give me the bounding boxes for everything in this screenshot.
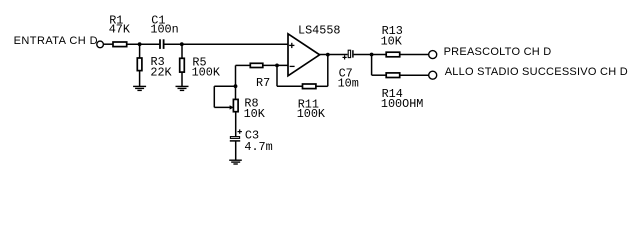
svg-text:100K: 100K [192, 65, 221, 79]
svg-text:10K: 10K [381, 34, 403, 48]
svg-text:LS4558: LS4558 [298, 24, 340, 38]
svg-text:100K: 100K [297, 107, 326, 121]
svg-text:10m: 10m [338, 76, 359, 90]
svg-text:22K: 22K [150, 65, 172, 79]
svg-text:R7: R7 [256, 76, 270, 90]
svg-text:PREASCOLTO CH D: PREASCOLTO CH D [444, 46, 552, 58]
svg-text:ENTRATA CH D: ENTRATA CH D [14, 35, 98, 47]
svg-text:10K: 10K [244, 107, 266, 121]
svg-text:100n: 100n [150, 23, 178, 37]
svg-text:4.7m: 4.7m [244, 140, 272, 154]
svg-text:47K: 47K [109, 22, 131, 36]
svg-text:100OHM: 100OHM [381, 97, 423, 111]
svg-text:ALLO STADIO SUCCESSIVO CH D: ALLO STADIO SUCCESSIVO CH D [445, 66, 628, 78]
